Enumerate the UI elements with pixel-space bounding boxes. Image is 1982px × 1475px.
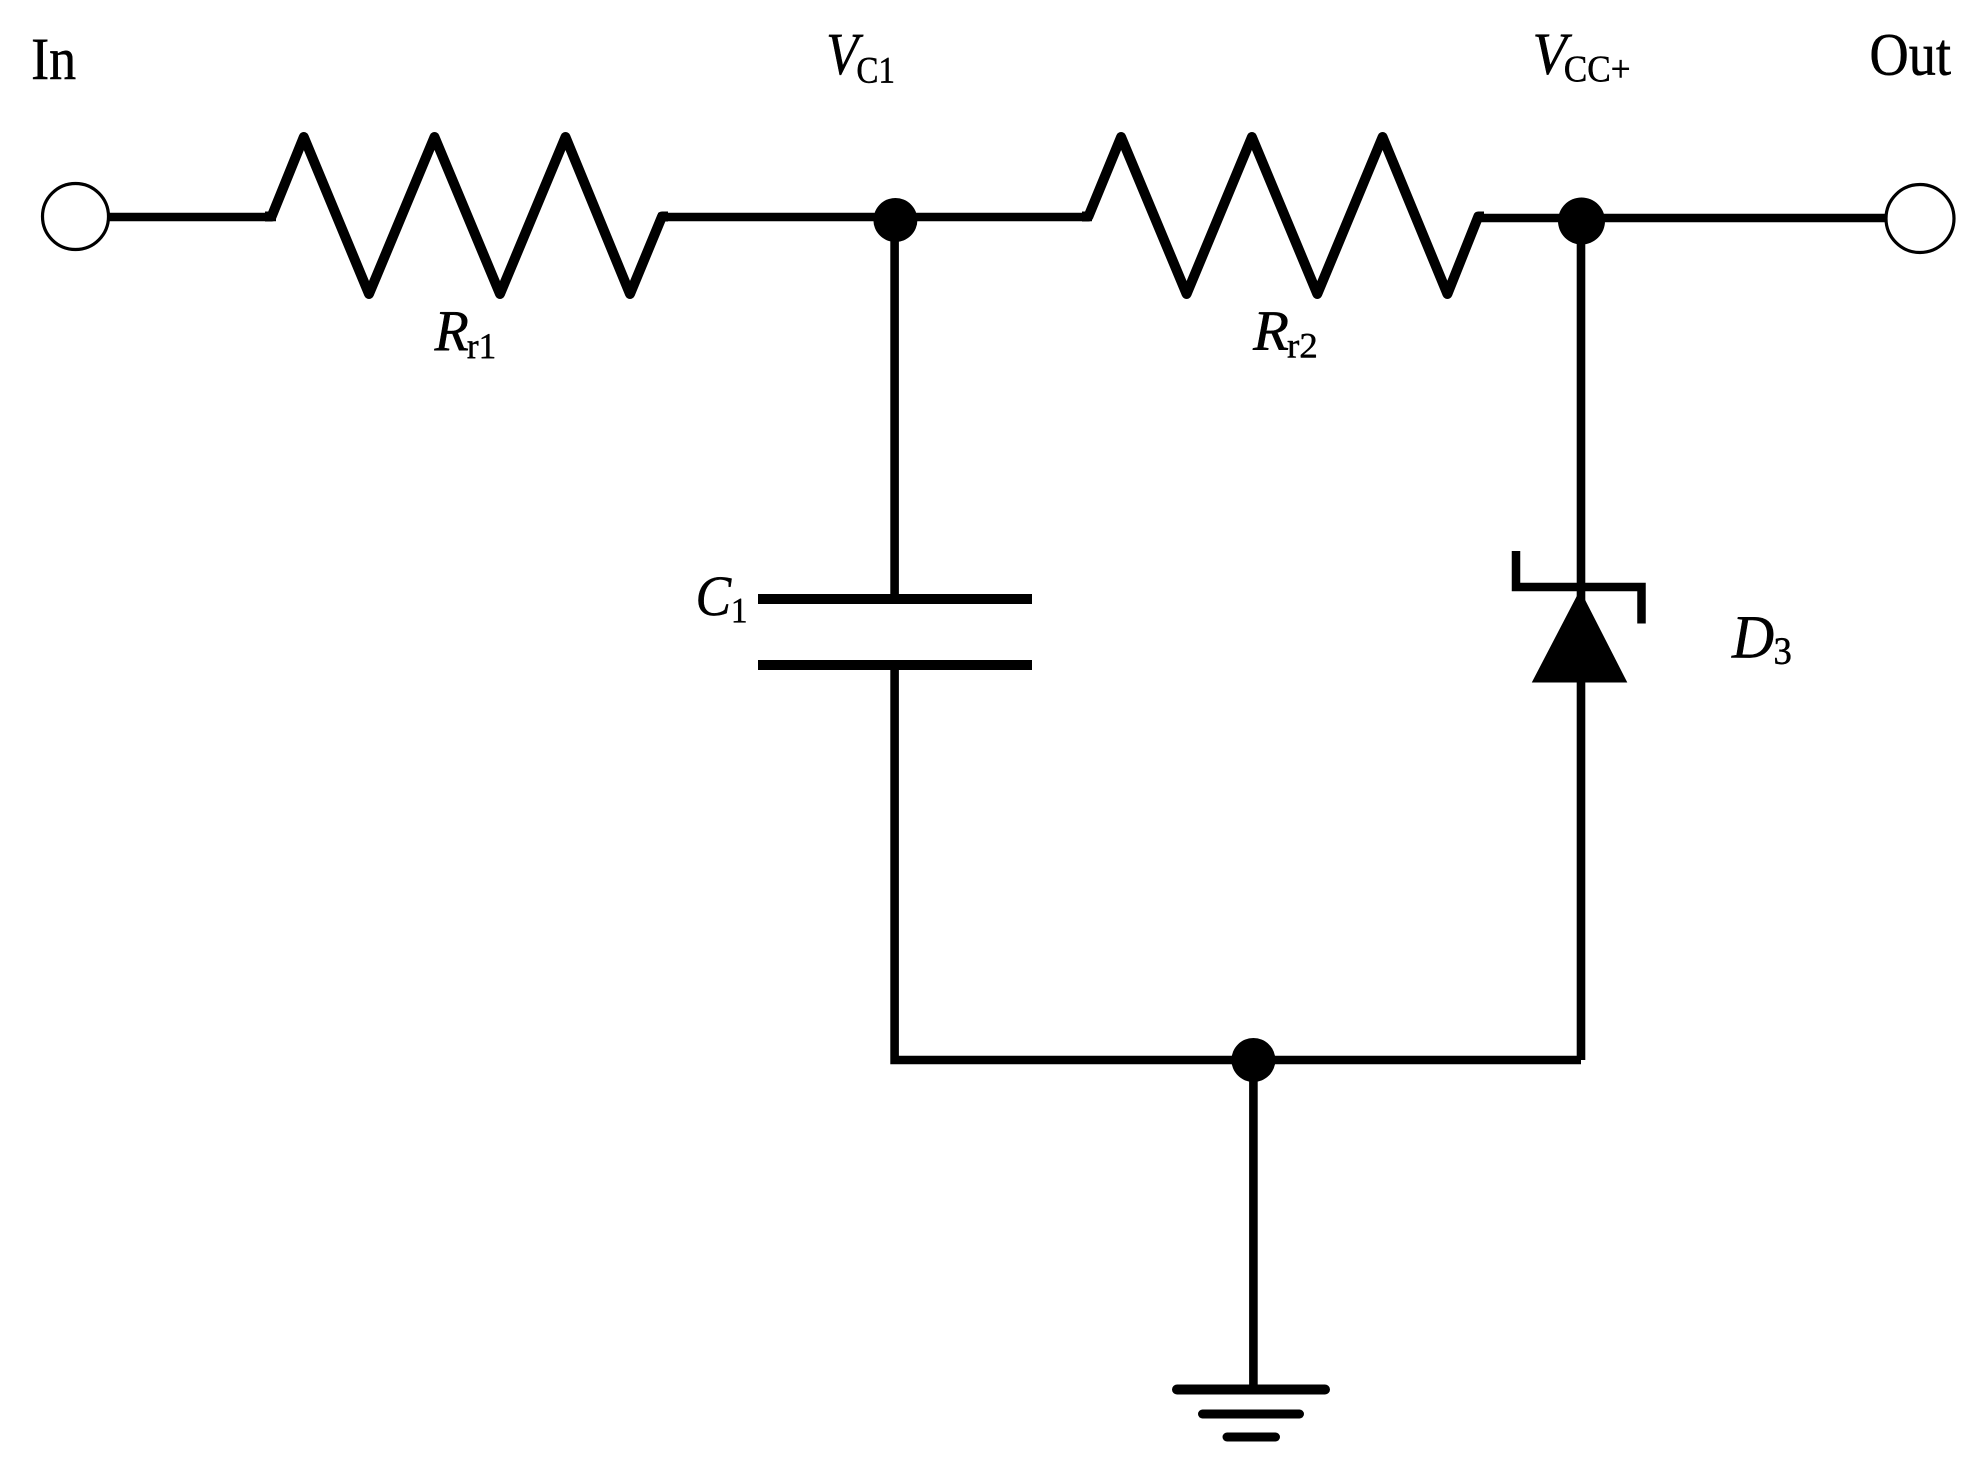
wire R1 to R2 xyxy=(658,213,1092,222)
wire D3 vertical xyxy=(1577,221,1586,1060)
resistor R1 xyxy=(265,137,668,294)
diode D3 triangle xyxy=(1533,591,1627,682)
node ground junction xyxy=(1231,1038,1275,1082)
capacitor C1 bottom plate xyxy=(758,660,1032,670)
wire R2 to Out xyxy=(1474,214,1888,223)
wire In to R1 xyxy=(108,213,276,222)
label In xyxy=(33,40,75,79)
node V_CC+ xyxy=(1558,198,1605,245)
label V_C1 xyxy=(829,35,893,83)
label D_3 xyxy=(1731,617,1790,664)
label C_1 xyxy=(698,577,745,622)
label V_CC+ xyxy=(1535,35,1628,82)
capacitor C1 top plate xyxy=(758,594,1032,604)
resistor R2 xyxy=(1082,137,1484,294)
wire ground stub xyxy=(1249,1060,1258,1389)
node V_C1 xyxy=(873,198,917,242)
label R_r2 xyxy=(1253,312,1316,357)
wire V_C1 down to C1 xyxy=(890,219,899,599)
diode D3 zener cathode bar xyxy=(1516,551,1642,624)
node Out terminal xyxy=(1886,185,1954,253)
ground xyxy=(1177,1385,1325,1395)
label R_r1 xyxy=(434,312,494,358)
node In terminal xyxy=(43,184,109,250)
wire C1 down and along bottom to D3 xyxy=(895,665,1581,1060)
label Out xyxy=(1872,35,1951,76)
